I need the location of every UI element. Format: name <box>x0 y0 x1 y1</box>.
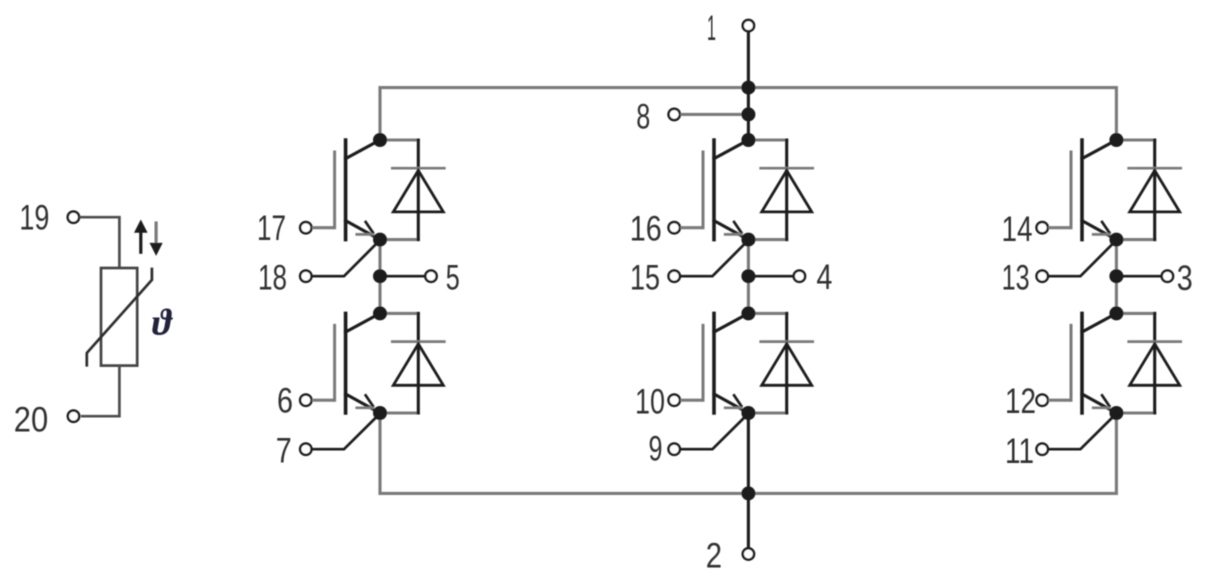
wire node to LS collector W <box>1115 276 1118 313</box>
current arrow up <box>134 220 148 254</box>
svg-text:18: 18 <box>258 258 287 297</box>
svg-text:1: 1 <box>707 9 716 48</box>
wire gate 6 <box>312 399 335 402</box>
junction emitter LS W <box>1109 406 1123 420</box>
terminal 4 (phase output V) <box>794 271 805 282</box>
transistor Q2 (LS phase U) <box>335 313 380 413</box>
transistor Q5 (HS phase W) <box>1071 140 1116 240</box>
terminal 12 (gate LS W) <box>1037 395 1048 406</box>
wire aux emitter 9 <box>680 414 748 450</box>
terminal 16 (gate HS V) <box>669 222 680 233</box>
terminal 5 (phase output U) <box>425 271 436 282</box>
junction collector Q1 (HS phase U) <box>373 133 387 147</box>
svg-text:19: 19 <box>19 199 49 238</box>
junction collector Q4 (LS phase V) <box>741 306 755 320</box>
svg-text:ϑ: ϑ <box>152 303 173 344</box>
svg-text:7: 7 <box>276 432 292 471</box>
wire terminal 1 to DC+ rail <box>747 32 750 88</box>
svg-text:17: 17 <box>257 209 286 248</box>
diode D2 <box>380 313 444 413</box>
current arrow down <box>150 221 163 256</box>
wire gate 17 <box>312 226 335 229</box>
terminal 3 (phase output W) <box>1162 271 1173 282</box>
wire DC+ rail <box>380 88 1116 140</box>
wire gate 12 <box>1048 399 1071 402</box>
wire aux emitter 13 <box>1048 240 1116 276</box>
svg-text:11: 11 <box>1005 432 1034 471</box>
wire terminal 19 to thermistor <box>79 217 119 267</box>
svg-text:16: 16 <box>630 210 662 249</box>
wire node to terminal 5 <box>386 275 425 278</box>
wire node to LS collector U <box>378 276 381 313</box>
terminal 9 (aux emitter LS V) <box>669 444 680 455</box>
terminal 1 <box>743 20 754 31</box>
transistor Q6 (LS phase W) <box>1071 313 1116 413</box>
wire emitter to node V <box>747 240 750 277</box>
svg-text:14: 14 <box>1002 210 1033 249</box>
svg-text:8: 8 <box>636 98 650 137</box>
junction terminal 8 <box>741 107 755 121</box>
svg-text:6: 6 <box>277 382 293 421</box>
wire gate 10 <box>680 399 703 402</box>
wire aux emitter 18 <box>312 240 380 276</box>
junction emitter LS U <box>373 406 387 420</box>
diode D5 <box>1116 140 1180 240</box>
wire aux emitter 15 <box>680 240 748 276</box>
svg-text:15: 15 <box>630 258 660 297</box>
wire gate 16 <box>680 226 703 229</box>
wire emitter to node U <box>378 240 381 277</box>
svg-text:13: 13 <box>1002 258 1030 297</box>
wire node to terminal 3 <box>1122 275 1161 278</box>
wire rail to collector (phase 2) <box>747 88 750 140</box>
wire gate 14 <box>1048 226 1071 229</box>
svg-text:4: 4 <box>816 258 832 297</box>
junction emitter LS V <box>741 406 755 420</box>
terminal 11 (aux emitter LS W) <box>1037 444 1048 455</box>
svg-text:20: 20 <box>14 401 48 440</box>
wire aux emitter 11 <box>1048 414 1116 450</box>
junction emitter HS U <box>373 233 387 247</box>
junction collector Q2 (LS phase U) <box>373 306 387 320</box>
terminal 10 (gate LS V) <box>669 395 680 406</box>
junction emitter HS V <box>741 233 755 247</box>
svg-text:12: 12 <box>1005 382 1036 421</box>
terminal 19 <box>68 212 79 223</box>
terminal 20 <box>68 411 79 422</box>
junction collector Q3 (HS phase V) <box>741 133 755 147</box>
junction collector Q6 (LS phase W) <box>1109 306 1123 320</box>
diode D4 <box>748 313 812 413</box>
junction phase node W <box>1109 269 1123 283</box>
wire LS emitter V to rail <box>747 413 750 493</box>
junction collector Q5 (HS phase W) <box>1109 133 1123 147</box>
wire node to LS collector V <box>747 276 750 313</box>
terminal 17 (gate HS U) <box>300 222 311 233</box>
wire node to terminal 4 <box>754 275 793 278</box>
terminal 14 (gate HS W) <box>1037 222 1048 233</box>
junction phase node U <box>373 269 387 283</box>
terminal 6 (gate LS U) <box>300 395 311 406</box>
transistor Q4 (LS phase V) <box>703 313 748 413</box>
wire thermistor to terminal 20 <box>81 366 120 417</box>
junction emitter HS W <box>1109 233 1123 247</box>
terminal 2 <box>743 548 754 559</box>
svg-text:9: 9 <box>649 430 663 469</box>
terminal 13 (aux emitter HS W) <box>1037 271 1048 282</box>
terminal 8 <box>669 109 680 120</box>
junction phase node V <box>741 269 755 283</box>
junction DC+ rail / terminal 1 <box>741 81 755 95</box>
terminal 15 (aux emitter HS V) <box>669 271 680 282</box>
transistor Q1 (HS phase U) <box>335 140 380 240</box>
wire terminal 8 <box>680 113 742 116</box>
diode D1 <box>380 140 444 240</box>
wire DC- rail <box>380 413 1116 493</box>
diode D6 <box>1116 313 1180 413</box>
wire rail to terminal 2 <box>747 493 750 548</box>
wire aux emitter 7 <box>312 414 380 450</box>
thermistor diagonal mark <box>87 268 152 367</box>
svg-text:2: 2 <box>706 537 722 576</box>
junction DC- rail / terminal 2 <box>741 486 755 500</box>
diode D3 <box>748 140 812 240</box>
terminal 18 (aux emitter HS U) <box>300 271 311 282</box>
wire emitter to node W <box>1115 240 1118 277</box>
terminal 7 (aux emitter LS U) <box>300 444 311 455</box>
svg-text:3: 3 <box>1177 259 1193 298</box>
transistor Q3 (HS phase V) <box>703 140 748 240</box>
svg-text:10: 10 <box>635 383 665 422</box>
svg-text:5: 5 <box>446 259 460 298</box>
thermistor R-NTC body <box>101 268 137 366</box>
